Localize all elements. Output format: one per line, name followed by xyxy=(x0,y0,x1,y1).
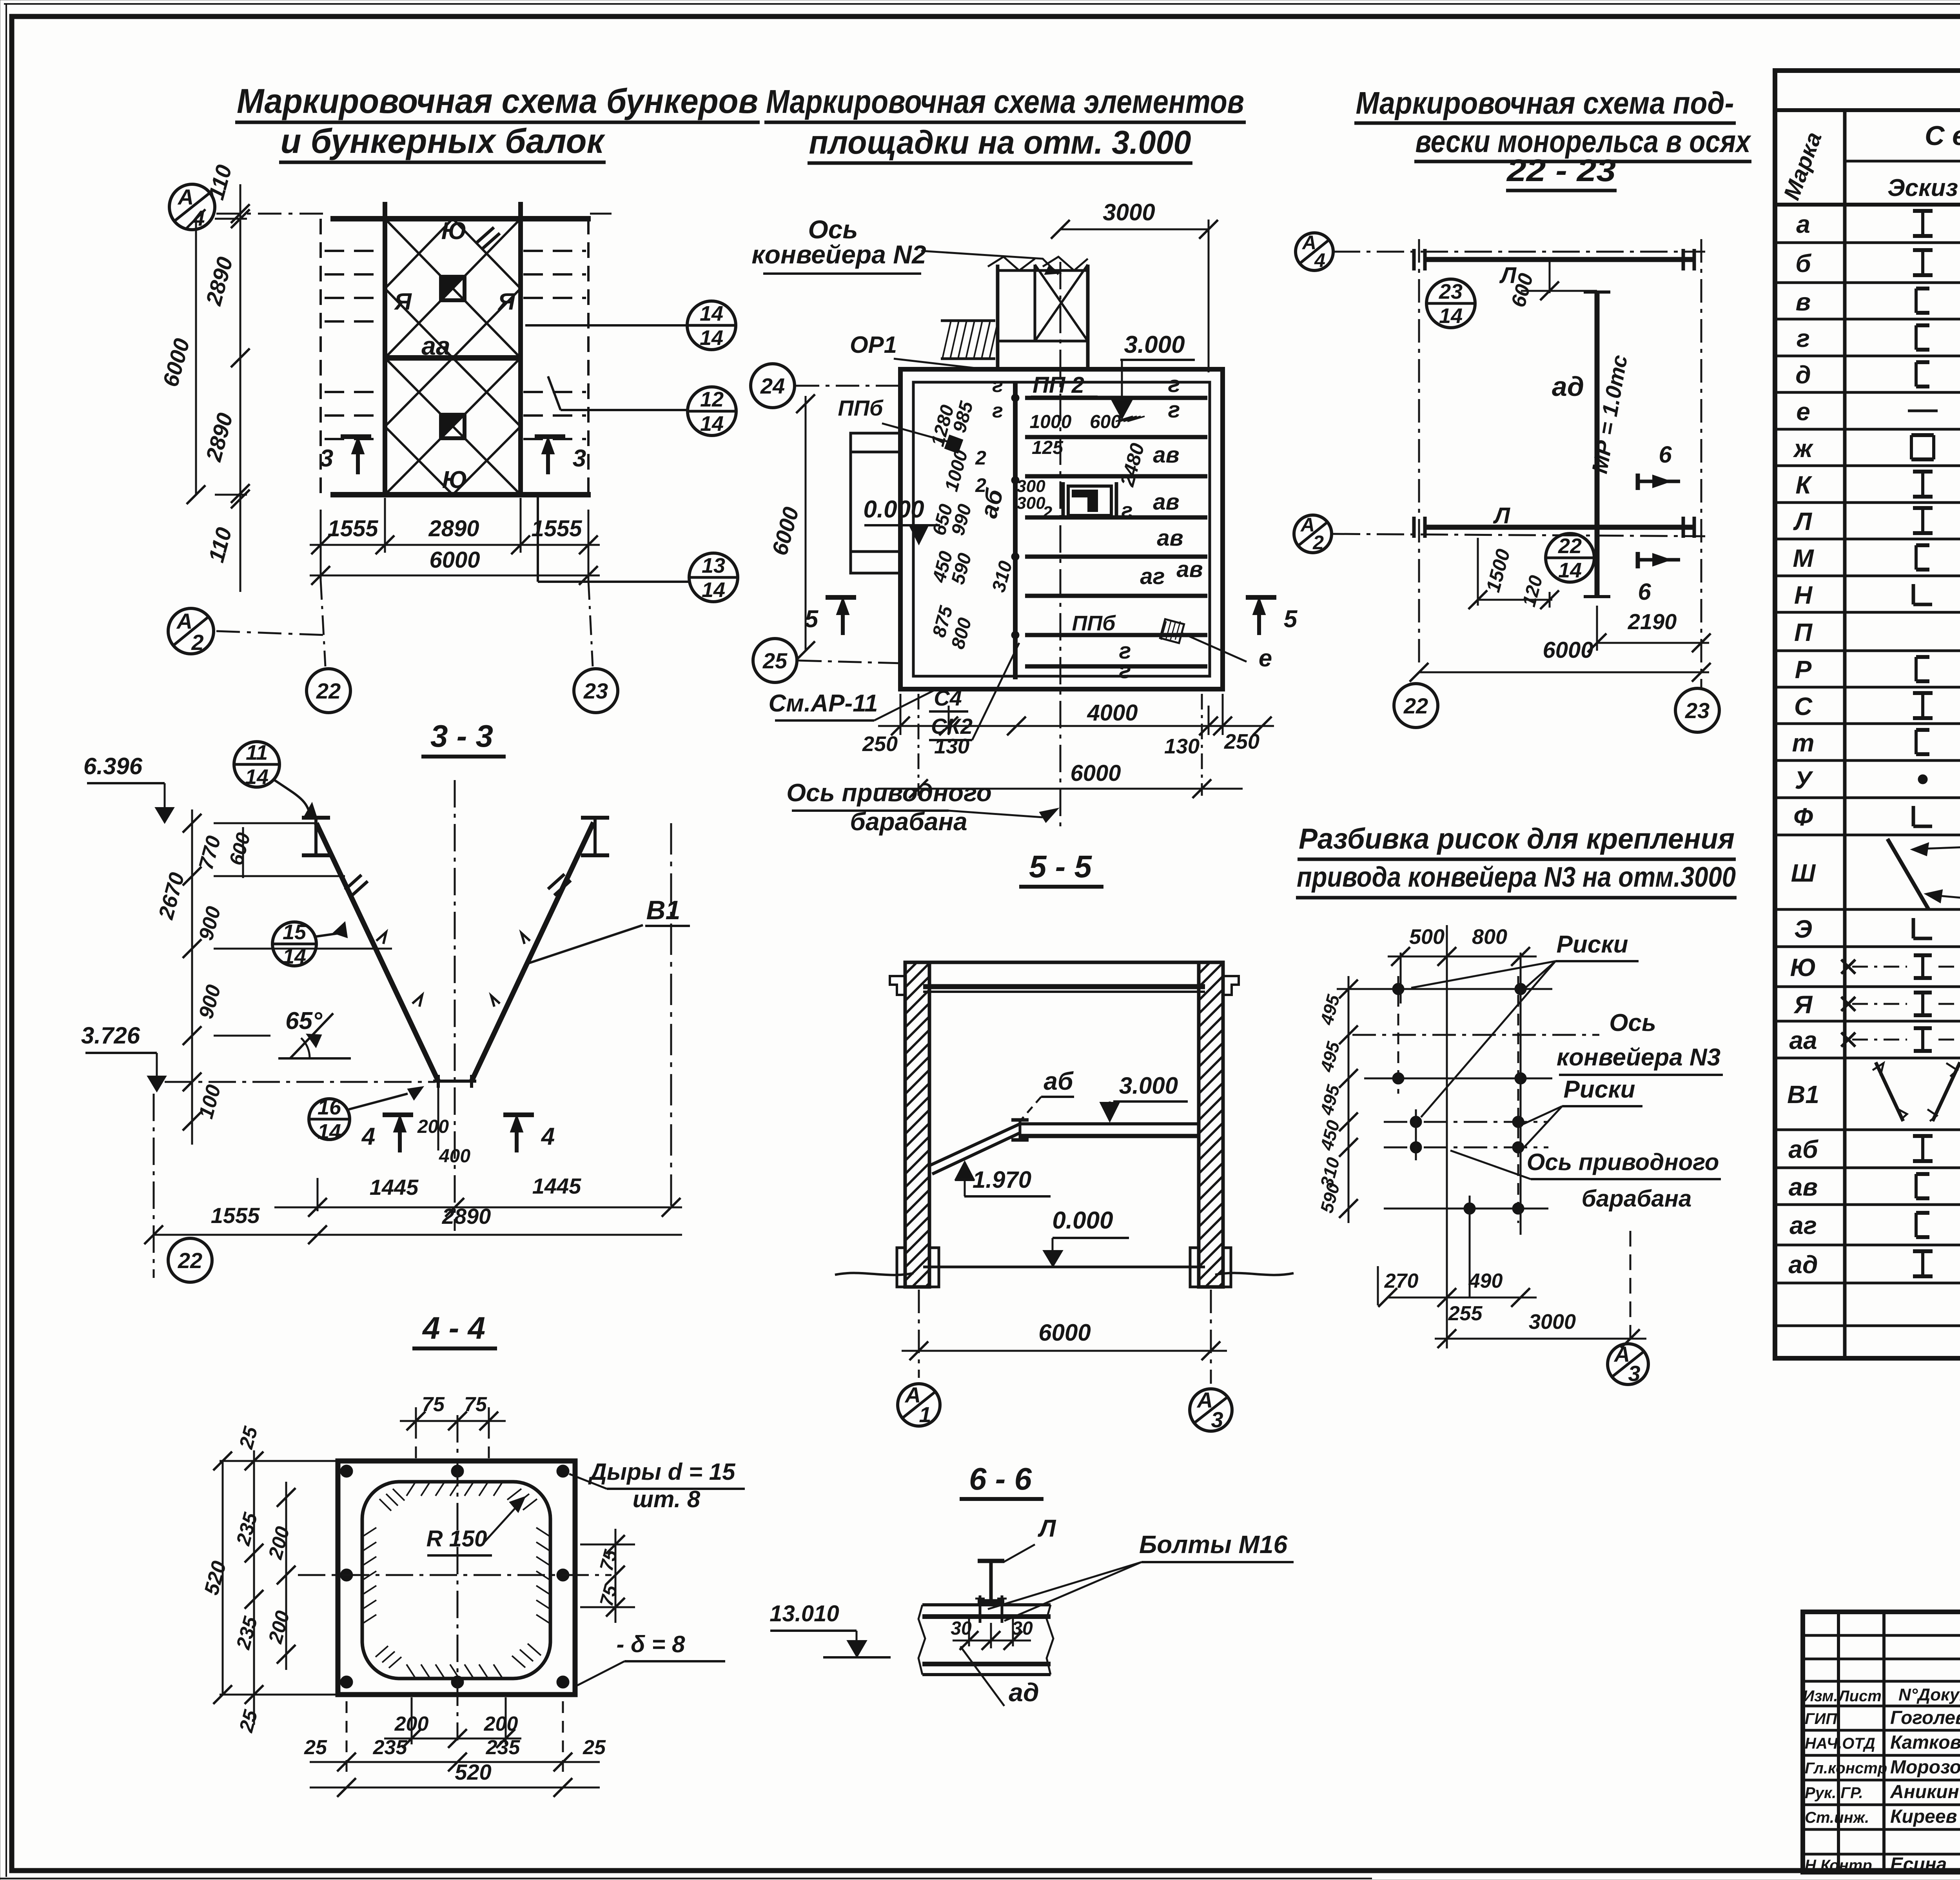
svg-text:т: т xyxy=(1792,729,1815,757)
svg-text:аг: аг xyxy=(1140,564,1165,589)
svg-text:Ст.инж.: Ст.инж. xyxy=(1805,1809,1869,1826)
svg-text:14: 14 xyxy=(245,765,269,789)
svg-text:6: 6 xyxy=(1638,579,1651,605)
svg-text:3000: 3000 xyxy=(1529,1310,1576,1334)
svg-text:6000: 6000 xyxy=(1038,1319,1091,1346)
svg-text:1: 1 xyxy=(919,1402,931,1427)
svg-text:аг: аг xyxy=(1789,1211,1817,1239)
svg-text:130: 130 xyxy=(1164,735,1200,758)
svg-text:800: 800 xyxy=(1472,925,1507,949)
svg-text:М: М xyxy=(1793,544,1814,572)
svg-text:Болты М16: Болты М16 xyxy=(1139,1530,1287,1559)
svg-text:3.000: 3.000 xyxy=(1124,331,1185,358)
svg-text:4: 4 xyxy=(192,206,205,230)
svg-text:ав: ав xyxy=(1153,489,1179,515)
svg-text:А: А xyxy=(1196,1388,1213,1412)
svg-text:Эскиз: Эскиз xyxy=(1887,174,1958,201)
svg-text:1000: 1000 xyxy=(1030,412,1072,432)
svg-text:14: 14 xyxy=(702,578,725,602)
svg-text:3.726: 3.726 xyxy=(81,1022,140,1049)
svg-text:Ось: Ось xyxy=(808,215,858,244)
svg-text:г: г xyxy=(992,374,1003,397)
svg-text:конвейера N3: конвейера N3 xyxy=(1557,1044,1720,1071)
svg-text:Разбивка рисок для креплени: Разбивка рисок для крепления xyxy=(1299,822,1735,855)
svg-text:Л: Л xyxy=(1793,507,1813,535)
svg-text:Маркировочная схема элементо: Маркировочная схема элементов xyxy=(766,83,1244,120)
svg-text:Я: Я xyxy=(394,289,412,315)
svg-text:Дыры d = 15: Дыры d = 15 xyxy=(588,1459,736,1485)
svg-text:200: 200 xyxy=(417,1116,449,1137)
svg-text:ОР1: ОР1 xyxy=(850,332,897,358)
svg-text:б: б xyxy=(1795,249,1812,278)
svg-text:Я: Я xyxy=(497,289,515,315)
svg-text:Лист: Лист xyxy=(1837,1688,1882,1705)
svg-text:Киреев: Киреев xyxy=(1890,1806,1957,1827)
svg-text:22: 22 xyxy=(1558,534,1582,558)
svg-text:24: 24 xyxy=(760,374,785,398)
svg-text:г: г xyxy=(1122,499,1133,522)
svg-text:г: г xyxy=(1119,658,1131,683)
svg-text:Риски: Риски xyxy=(1556,931,1628,958)
svg-text:ав: ав xyxy=(1176,557,1203,582)
svg-text:3000: 3000 xyxy=(1103,199,1155,225)
svg-text:23: 23 xyxy=(1685,698,1710,723)
svg-text:2890: 2890 xyxy=(442,1204,491,1229)
svg-text:В1: В1 xyxy=(646,895,681,925)
svg-text:23: 23 xyxy=(1439,280,1463,303)
svg-text:R 150: R 150 xyxy=(426,1526,487,1552)
svg-text:270: 270 xyxy=(1384,1270,1419,1292)
svg-text:ГИП: ГИП xyxy=(1805,1710,1837,1728)
svg-text:ППб: ППб xyxy=(1072,612,1116,635)
svg-text:е: е xyxy=(1259,645,1272,672)
svg-text:е: е xyxy=(1796,397,1810,426)
svg-text:6000: 6000 xyxy=(1070,760,1121,786)
svg-text:200: 200 xyxy=(394,1713,429,1735)
svg-text:235: 235 xyxy=(486,1736,521,1759)
svg-text:Н.Контр: Н.Контр xyxy=(1805,1857,1872,1874)
svg-text:16: 16 xyxy=(318,1096,341,1119)
svg-text:ав: ав xyxy=(1153,442,1179,468)
svg-text:6: 6 xyxy=(1659,441,1672,468)
svg-text:255: 255 xyxy=(1448,1302,1483,1325)
svg-text:барабана: барабана xyxy=(1582,1185,1692,1212)
svg-text:300: 300 xyxy=(1016,494,1045,513)
svg-text:250: 250 xyxy=(862,732,898,756)
svg-text:Р: Р xyxy=(1795,655,1812,684)
svg-text:4000: 4000 xyxy=(1087,700,1138,726)
svg-text:400: 400 xyxy=(439,1146,470,1167)
svg-text:шт. 8: шт. 8 xyxy=(633,1486,701,1512)
svg-text:3.000: 3.000 xyxy=(1119,1072,1178,1099)
svg-text:площадки на отм. 3.000: площадки на отм. 3.000 xyxy=(809,124,1191,161)
svg-text:1555: 1555 xyxy=(327,516,378,541)
svg-text:75: 75 xyxy=(464,1393,487,1416)
svg-text:ж: ж xyxy=(1793,434,1813,463)
svg-text:Аникин: Аникин xyxy=(1890,1782,1959,1802)
svg-text:а: а xyxy=(1796,210,1810,238)
svg-text:Л: Л xyxy=(1038,1515,1056,1542)
svg-text:14: 14 xyxy=(700,412,724,436)
svg-text:6 - 6: 6 - 6 xyxy=(969,1461,1032,1496)
svg-text:С е ч е н и е: С е ч е н и е xyxy=(1925,120,1960,151)
svg-text:200: 200 xyxy=(484,1713,518,1735)
svg-text:конвейера N2: конвейера N2 xyxy=(751,240,926,269)
svg-text:Ось приводного: Ось приводного xyxy=(1527,1149,1719,1175)
svg-text:11: 11 xyxy=(246,741,268,764)
svg-text:А: А xyxy=(904,1383,921,1407)
svg-text:ад: ад xyxy=(1552,371,1584,402)
svg-text:22 - 23: 22 - 23 xyxy=(1506,153,1616,188)
svg-text:N°Докум.: N°Докум. xyxy=(1898,1685,1960,1704)
svg-text:5: 5 xyxy=(1284,606,1298,633)
svg-text:14: 14 xyxy=(1558,559,1582,582)
svg-text:С: С xyxy=(1794,692,1813,720)
svg-text:6000: 6000 xyxy=(1543,637,1593,663)
svg-text:1555: 1555 xyxy=(211,1203,260,1228)
svg-text:14: 14 xyxy=(700,326,723,350)
svg-text:г: г xyxy=(1797,324,1810,352)
svg-text:Маркировочная схема бункеров: Маркировочная схема бункеров xyxy=(237,82,758,120)
svg-text:Рук. ГР.: Рук. ГР. xyxy=(1805,1784,1863,1802)
svg-text:2190: 2190 xyxy=(1628,609,1677,634)
svg-text:ад: ад xyxy=(1788,1250,1818,1279)
svg-text:14: 14 xyxy=(700,302,723,325)
svg-text:Маркировочная схема под-: Маркировочная схема под- xyxy=(1356,85,1734,120)
svg-text:0.000: 0.000 xyxy=(1052,1207,1113,1234)
svg-text:5: 5 xyxy=(805,606,819,633)
svg-text:Я: Я xyxy=(1793,991,1813,1019)
svg-text:Л: Л xyxy=(1493,503,1510,528)
svg-text:25: 25 xyxy=(304,1736,327,1759)
svg-text:г: г xyxy=(992,399,1003,422)
svg-text:ППб: ППб xyxy=(838,396,884,420)
svg-text:25: 25 xyxy=(583,1736,606,1759)
svg-text:3: 3 xyxy=(573,445,586,472)
svg-text:75: 75 xyxy=(422,1393,445,1416)
svg-text:3: 3 xyxy=(1211,1407,1223,1432)
svg-text:6.396: 6.396 xyxy=(83,753,143,779)
svg-text:Катков: Катков xyxy=(1890,1732,1960,1753)
svg-text:14: 14 xyxy=(1439,304,1463,328)
svg-text:4: 4 xyxy=(1314,249,1325,271)
svg-text:г: г xyxy=(1168,372,1180,397)
svg-text:аб: аб xyxy=(1788,1135,1819,1163)
svg-text:ПП 2: ПП 2 xyxy=(1033,372,1084,398)
svg-text:3: 3 xyxy=(1628,1361,1640,1386)
svg-text:2: 2 xyxy=(191,630,203,655)
svg-text:300: 300 xyxy=(1016,477,1045,496)
svg-text:Изм.: Изм. xyxy=(1803,1688,1838,1705)
svg-text:490: 490 xyxy=(1468,1270,1503,1292)
svg-text:4: 4 xyxy=(361,1123,375,1150)
svg-text:125: 125 xyxy=(1032,437,1063,458)
svg-text:- δ = 8: - δ = 8 xyxy=(616,1631,685,1657)
svg-text:А: А xyxy=(1613,1342,1630,1366)
svg-text:2890: 2890 xyxy=(428,516,479,541)
svg-text:аа: аа xyxy=(1789,1026,1817,1054)
svg-text:и бункерных балок: и бункерных балок xyxy=(281,122,606,160)
svg-text:У: У xyxy=(1795,766,1813,794)
svg-text:ав: ав xyxy=(1157,525,1183,551)
svg-text:г: г xyxy=(1168,397,1180,423)
svg-text:Морозова: Морозова xyxy=(1890,1757,1960,1778)
svg-text:30: 30 xyxy=(951,1618,972,1639)
svg-text:Ф: Ф xyxy=(1793,803,1813,831)
svg-text:2: 2 xyxy=(975,447,986,469)
svg-text:12: 12 xyxy=(700,388,724,411)
svg-text:14: 14 xyxy=(318,1120,341,1143)
svg-text:Н: Н xyxy=(1794,581,1813,609)
svg-text:1445: 1445 xyxy=(370,1175,419,1199)
svg-text:А: А xyxy=(177,185,194,209)
svg-text:13.010: 13.010 xyxy=(769,1601,839,1626)
svg-text:аа: аа xyxy=(421,331,450,360)
svg-text:500: 500 xyxy=(1409,925,1445,949)
svg-text:В1: В1 xyxy=(1787,1080,1819,1109)
svg-text:ад: ад xyxy=(1009,1678,1039,1707)
svg-text:4 - 4: 4 - 4 xyxy=(422,1310,485,1345)
svg-text:22: 22 xyxy=(1403,693,1428,718)
svg-text:130: 130 xyxy=(934,735,969,758)
svg-text:Ю: Ю xyxy=(442,466,468,494)
svg-text:Ю: Ю xyxy=(441,218,467,245)
svg-text:д: д xyxy=(1795,361,1811,389)
svg-text:НАЧ.ОТД: НАЧ.ОТД xyxy=(1805,1735,1875,1752)
svg-text:А: А xyxy=(176,609,192,633)
svg-text:2: 2 xyxy=(1042,503,1053,522)
svg-text:К: К xyxy=(1795,471,1812,499)
svg-text:Ю: Ю xyxy=(1790,953,1817,982)
svg-text:3 - 3: 3 - 3 xyxy=(430,719,493,753)
svg-text:аб: аб xyxy=(1044,1067,1074,1095)
svg-text:13: 13 xyxy=(702,554,725,577)
svg-text:22: 22 xyxy=(316,679,341,703)
svg-text:Э: Э xyxy=(1794,915,1812,943)
svg-text:23: 23 xyxy=(583,679,608,703)
svg-text:Есина: Есина xyxy=(1890,1854,1947,1875)
svg-text:25: 25 xyxy=(762,648,788,673)
svg-text:Ш: Ш xyxy=(1791,859,1816,887)
svg-text:2: 2 xyxy=(1312,532,1324,553)
svg-text:15: 15 xyxy=(283,920,307,944)
svg-text:3: 3 xyxy=(320,445,333,472)
svg-text:ав: ав xyxy=(1789,1173,1818,1201)
svg-text:14: 14 xyxy=(283,945,306,968)
svg-text:Гл.констр: Гл.констр xyxy=(1805,1760,1887,1777)
svg-text:Риски: Риски xyxy=(1563,1076,1635,1103)
svg-text:2: 2 xyxy=(975,474,986,496)
svg-text:Гоголев: Гоголев xyxy=(1890,1708,1960,1728)
svg-text:Ось: Ось xyxy=(1609,1009,1656,1036)
svg-text:250: 250 xyxy=(1224,730,1259,753)
svg-text:в: в xyxy=(1796,288,1811,316)
svg-text:235: 235 xyxy=(373,1736,408,1759)
svg-text:30: 30 xyxy=(1012,1618,1033,1639)
svg-text:520: 520 xyxy=(455,1760,491,1784)
svg-text:1.970: 1.970 xyxy=(973,1167,1031,1193)
svg-text:6000: 6000 xyxy=(429,547,480,573)
svg-text:5 - 5: 5 - 5 xyxy=(1029,849,1093,884)
svg-text:1445: 1445 xyxy=(532,1174,581,1198)
svg-text:Ось приводного: Ось приводного xyxy=(786,778,992,807)
svg-text:600: 600 xyxy=(1090,412,1121,432)
svg-text:привода конвейера N3 на отм.: привода конвейера N3 на отм.3000 xyxy=(1297,862,1736,893)
svg-text:П: П xyxy=(1794,618,1813,646)
svg-text:22: 22 xyxy=(178,1248,202,1273)
svg-text:См.АР-11: См.АР-11 xyxy=(769,690,878,717)
svg-text:4: 4 xyxy=(541,1123,555,1150)
svg-text:0.000: 0.000 xyxy=(863,496,924,523)
